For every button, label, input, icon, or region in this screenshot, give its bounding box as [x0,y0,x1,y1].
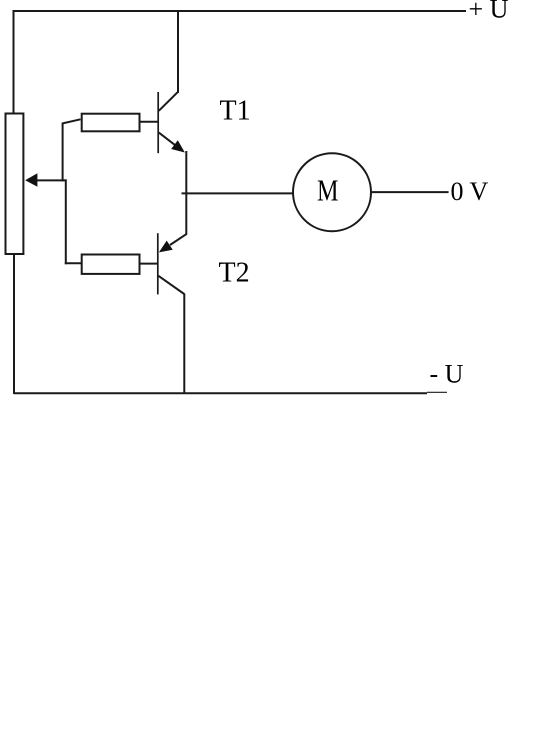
svg-text:M: M [317,172,339,207]
wire motor to 0V [371,191,449,193]
wire output node to motor [182,192,294,194]
wire emitter/output vertical [185,151,187,234]
transistor T1 emitter diagonal [159,133,176,146]
svg-text:+ U: + U [469,0,509,23]
transistor T2 collector diagonal [158,276,184,294]
svg-text:T2: T2 [219,257,250,288]
wire R1 to T1 base [141,121,159,123]
wire slant to R1 [63,119,81,123]
transistor T1 base bar [157,92,159,153]
transistor T1 emitter arrow [171,140,185,152]
transistor T2 emitter diagonal [170,234,187,245]
transistor T1 collector diagonal [159,92,178,111]
potentiometer P1 [6,114,24,255]
wire top +U rail [13,10,467,12]
transistor T2 emitter arrow [159,241,173,253]
svg-text:0 V: 0 V [451,177,489,206]
wire T2 collector vertical [183,294,185,395]
potentiometer wiper arrow [25,173,37,186]
wire R2 to T2 base [141,263,158,265]
wire left rail lower [13,254,15,394]
wire T1 collector vertical [177,10,179,93]
resistor R1 [82,114,140,132]
motor M1 circle [293,153,371,231]
wire wiper horizontal [37,179,67,181]
transistor T2 base bar [157,233,159,294]
wire to R2 left [65,262,81,264]
wire bottom -U rail [14,392,427,394]
wire bottom rail thin extension [427,391,447,393]
wire branch vertical upper [62,123,64,182]
resistor R2 [82,255,140,274]
wire left rail upper [13,10,15,113]
svg-text:T1: T1 [220,96,251,127]
svg-text:- U: - U [430,359,464,388]
wire branch vertical lower [65,179,67,264]
